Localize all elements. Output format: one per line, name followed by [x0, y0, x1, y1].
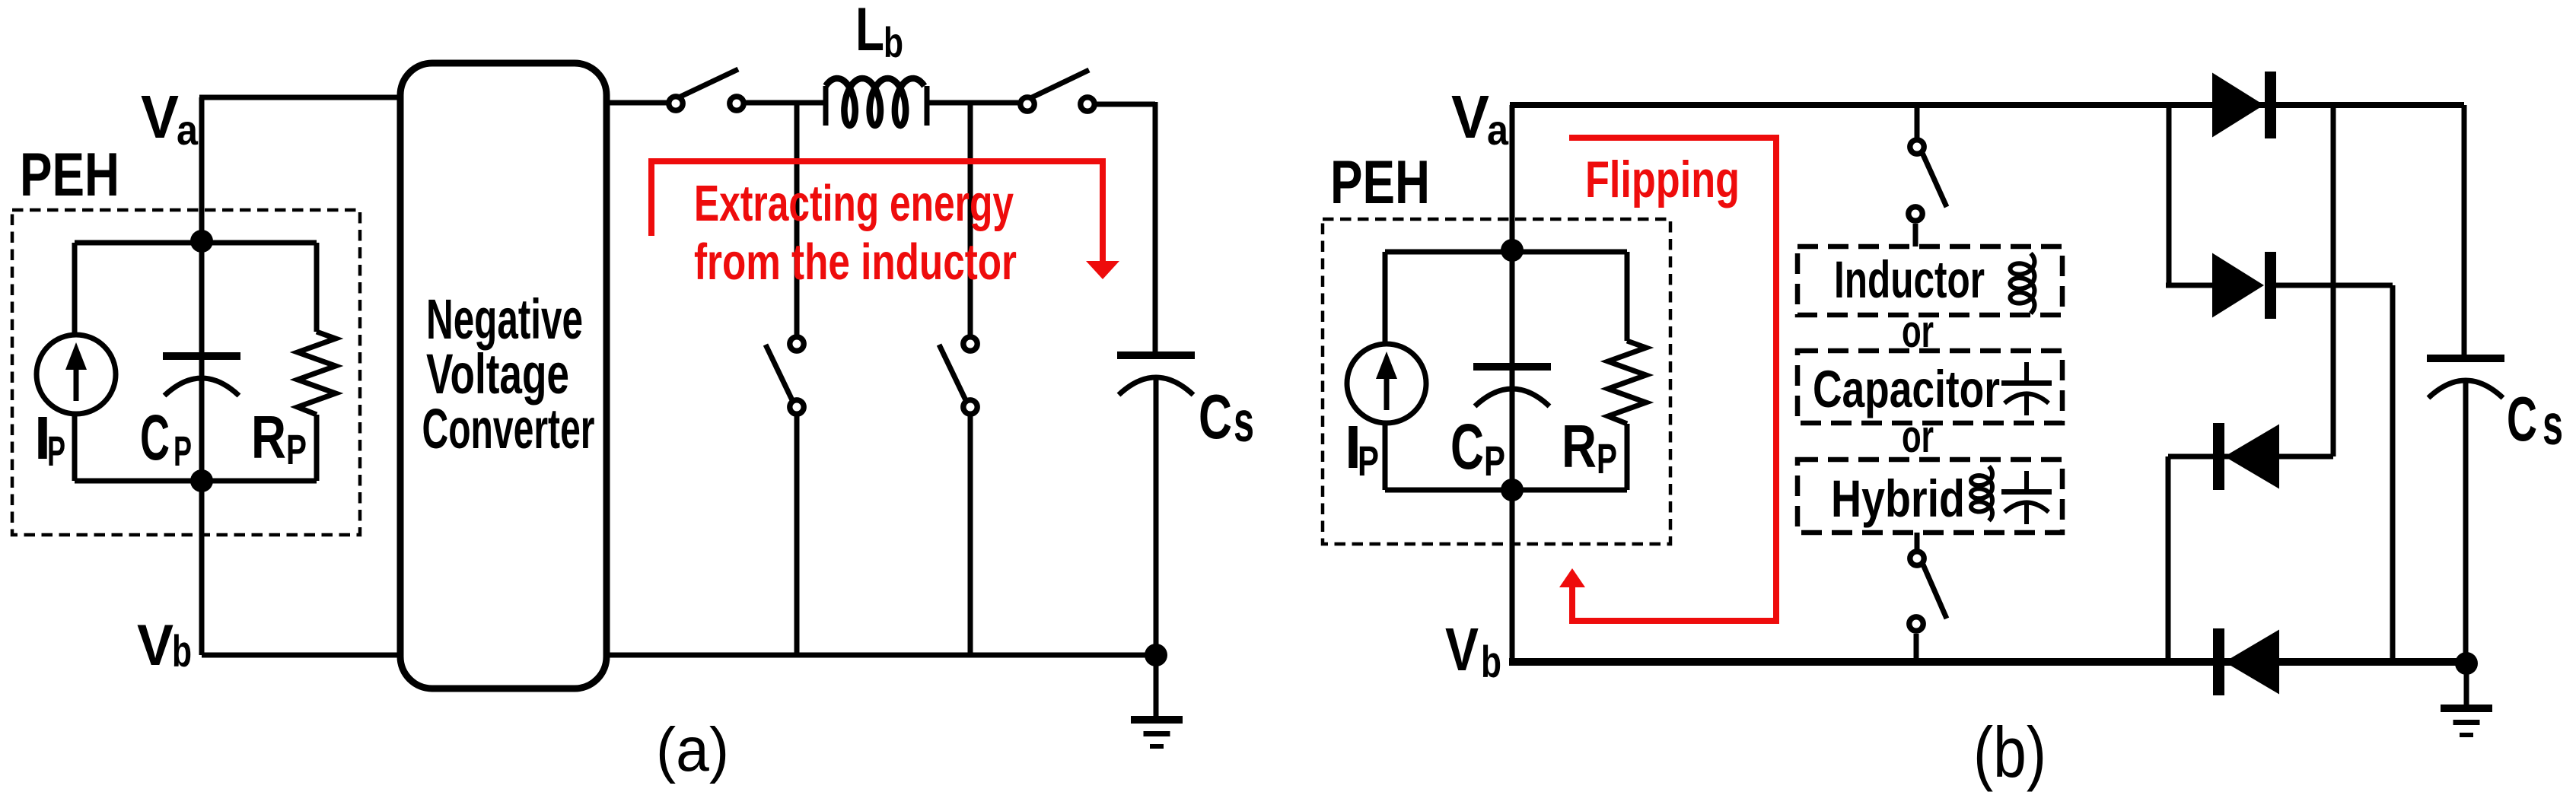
svg-text:P: P [1358, 437, 1379, 485]
svg-text:a: a [177, 106, 199, 154]
block U1 Negative Voltage Converter [400, 63, 607, 689]
vertical wire C: D2 to Vb (b) [2390, 285, 2396, 662]
small coil in Inductor box [2011, 253, 2035, 313]
svg-text:P: P [174, 427, 192, 475]
dashed box Hybrid [1797, 460, 2062, 533]
diode D2 (b) [2212, 252, 2276, 319]
diode D1 (b) [2212, 72, 2276, 138]
label IP (b) [1345, 413, 1379, 485]
current source arrow (a) [74, 367, 79, 401]
wire Vb bottom (a) [202, 653, 403, 658]
wire Va vertical (b) [1510, 105, 1515, 662]
wire NVC right to switch S1 (a) [607, 100, 667, 106]
wire current-source branch (a) [72, 243, 78, 337]
PEH dashed box (b) [1323, 219, 1670, 544]
switch S2 (a) [1021, 70, 1094, 111]
branch wire 1 bottom (a) [794, 415, 800, 655]
svg-text:Negative: Negative [426, 288, 583, 351]
wire S1 to Lb [746, 100, 826, 106]
wire D3 row (b) [2168, 454, 2333, 460]
wire inner bottom (a) [75, 479, 317, 484]
svg-text:P: P [47, 427, 65, 475]
current source IP circle (b) [1347, 344, 1426, 423]
junction dot node b-top [1501, 239, 1524, 262]
svg-text:L: L [855, 0, 884, 64]
svg-text:V: V [137, 613, 174, 678]
svg-text:s: s [2543, 393, 2563, 456]
wire top rail to Cs (b) [2462, 105, 2467, 355]
junction dot node b-bottom [1501, 479, 1524, 501]
inductor Lb [823, 86, 829, 126]
branch wire 2 top (a) [968, 103, 973, 336]
current source IP circle (a) [37, 335, 116, 414]
diode D3 (b) [2213, 423, 2279, 490]
label CP (a) [140, 402, 192, 475]
label Vb (b) [1445, 615, 1501, 687]
svg-text:Converter: Converter [422, 397, 595, 460]
svg-text:P: P [286, 425, 307, 473]
red annotation Flipping (b) [1569, 138, 1776, 621]
svg-text:from the inductor: from the inductor [694, 234, 1017, 291]
diode D4 (b) [2213, 628, 2279, 695]
switch S6 bottom (b) [1915, 533, 1920, 551]
wire S2 to Cs corner [1097, 102, 1155, 107]
wire D2 cathode to vertical C (b) [2276, 283, 2393, 288]
label Cs (a) [1199, 381, 1254, 453]
svg-text:b: b [884, 18, 903, 66]
svg-text:a: a [1487, 106, 1509, 154]
red annotation bracket + arrow (a) [651, 161, 1103, 265]
svg-text:V: V [141, 83, 179, 151]
junction dot node a-top [190, 230, 213, 253]
wire inner top (b) [1385, 250, 1627, 255]
svg-text:Extracting energy: Extracting energy [694, 175, 1014, 232]
svg-text:b: b [1481, 638, 1501, 687]
svg-text:Voltage: Voltage [426, 342, 569, 406]
node Va label (b) [1451, 83, 1509, 154]
label IP (a) [34, 404, 65, 475]
wire inner top (a) [75, 240, 317, 246]
dashed box Inductor [1797, 247, 2062, 315]
ground (a) [1154, 655, 1159, 716]
capacitor CP (b) [1510, 250, 1515, 362]
branch wire 1 top (a) [794, 103, 800, 336]
junction dot node a-bottom [190, 469, 213, 492]
label Cs (b) [2507, 383, 2563, 456]
small capacitor symbol in Capacitor box [2001, 362, 2052, 415]
junction dot Vb/Cs (b) [2455, 652, 2478, 675]
capacitor Cs (b) [2427, 355, 2504, 398]
svg-text:V: V [1451, 83, 1489, 151]
wire Vb right of NVC (a) [607, 653, 1156, 658]
svg-text:P: P [1597, 434, 1617, 482]
svg-text:P: P [1484, 437, 1505, 485]
PEH dashed box (a) [12, 210, 360, 535]
label RP (a) [251, 403, 307, 473]
svg-text:Inductor: Inductor [1834, 250, 1985, 309]
resistor RP (a): leads + zigzag [314, 243, 320, 332]
svg-text:Capacitor: Capacitor [1813, 360, 2000, 418]
wire top rail (b) [1510, 102, 2464, 108]
svg-text:Hybrid: Hybrid [1831, 469, 1965, 528]
wire Lb to switch S2 [927, 100, 1018, 106]
svg-text:C: C [2507, 383, 2537, 454]
svg-text:s: s [1234, 390, 1254, 453]
wire current-source branch (b) [1383, 252, 1388, 346]
wire Va top (a): corner to NVC [199, 97, 205, 655]
vertical wire A: Va to D2 (b) [2167, 105, 2172, 285]
small coil in Hybrid box [1971, 466, 1992, 521]
svg-text:C: C [1450, 411, 1484, 482]
capacitor CP (a): lead + plates + lead [199, 241, 205, 353]
label CP (b) [1450, 411, 1505, 485]
svg-text:PEH: PEH [20, 141, 119, 209]
branch wire 2 bottom (a) [968, 415, 973, 655]
svg-text:C: C [140, 402, 170, 473]
svg-text:Flipping: Flipping [1585, 151, 1740, 208]
wire Vb rail (b) [1509, 658, 2466, 666]
ground (b) [2464, 663, 2469, 705]
junction dot Vb/Cs (a) [1145, 644, 1167, 666]
current source arrow (b) [1384, 376, 1390, 410]
svg-text:V: V [1445, 615, 1479, 683]
switch S1 (a): two circles + blade [669, 69, 744, 110]
wire inner bottom (b) [1385, 488, 1627, 493]
svg-text:(a): (a) [656, 715, 729, 784]
vertical wire B: D1 cathode down to D3 (b) [2331, 105, 2336, 456]
svg-text:(b): (b) [1973, 712, 2046, 792]
small capacitor symbol in Hybrid box [2001, 471, 2052, 524]
capacitor Cs (a) [1117, 351, 1195, 395]
svg-text:or: or [1902, 411, 1934, 462]
node Va label (a) [141, 83, 199, 154]
label RP (b) [1562, 412, 1617, 482]
vertical wire D: D3 to Vb (b) [2166, 456, 2171, 662]
svg-text:R: R [251, 403, 286, 471]
svg-text:R: R [1562, 412, 1597, 480]
label Vb (a) [137, 613, 192, 678]
switch S5 top (b) [1915, 105, 1920, 139]
svg-text:b: b [172, 627, 192, 676]
resistor RP (b) [1625, 252, 1630, 341]
svg-text:PEH: PEH [1330, 148, 1430, 217]
dashed box Capacitor [1797, 351, 2062, 423]
label Lb [855, 0, 903, 66]
switch S3 (a) vertical [766, 337, 804, 414]
switch S4 (a) vertical [939, 337, 977, 414]
svg-text:C: C [1199, 381, 1232, 452]
